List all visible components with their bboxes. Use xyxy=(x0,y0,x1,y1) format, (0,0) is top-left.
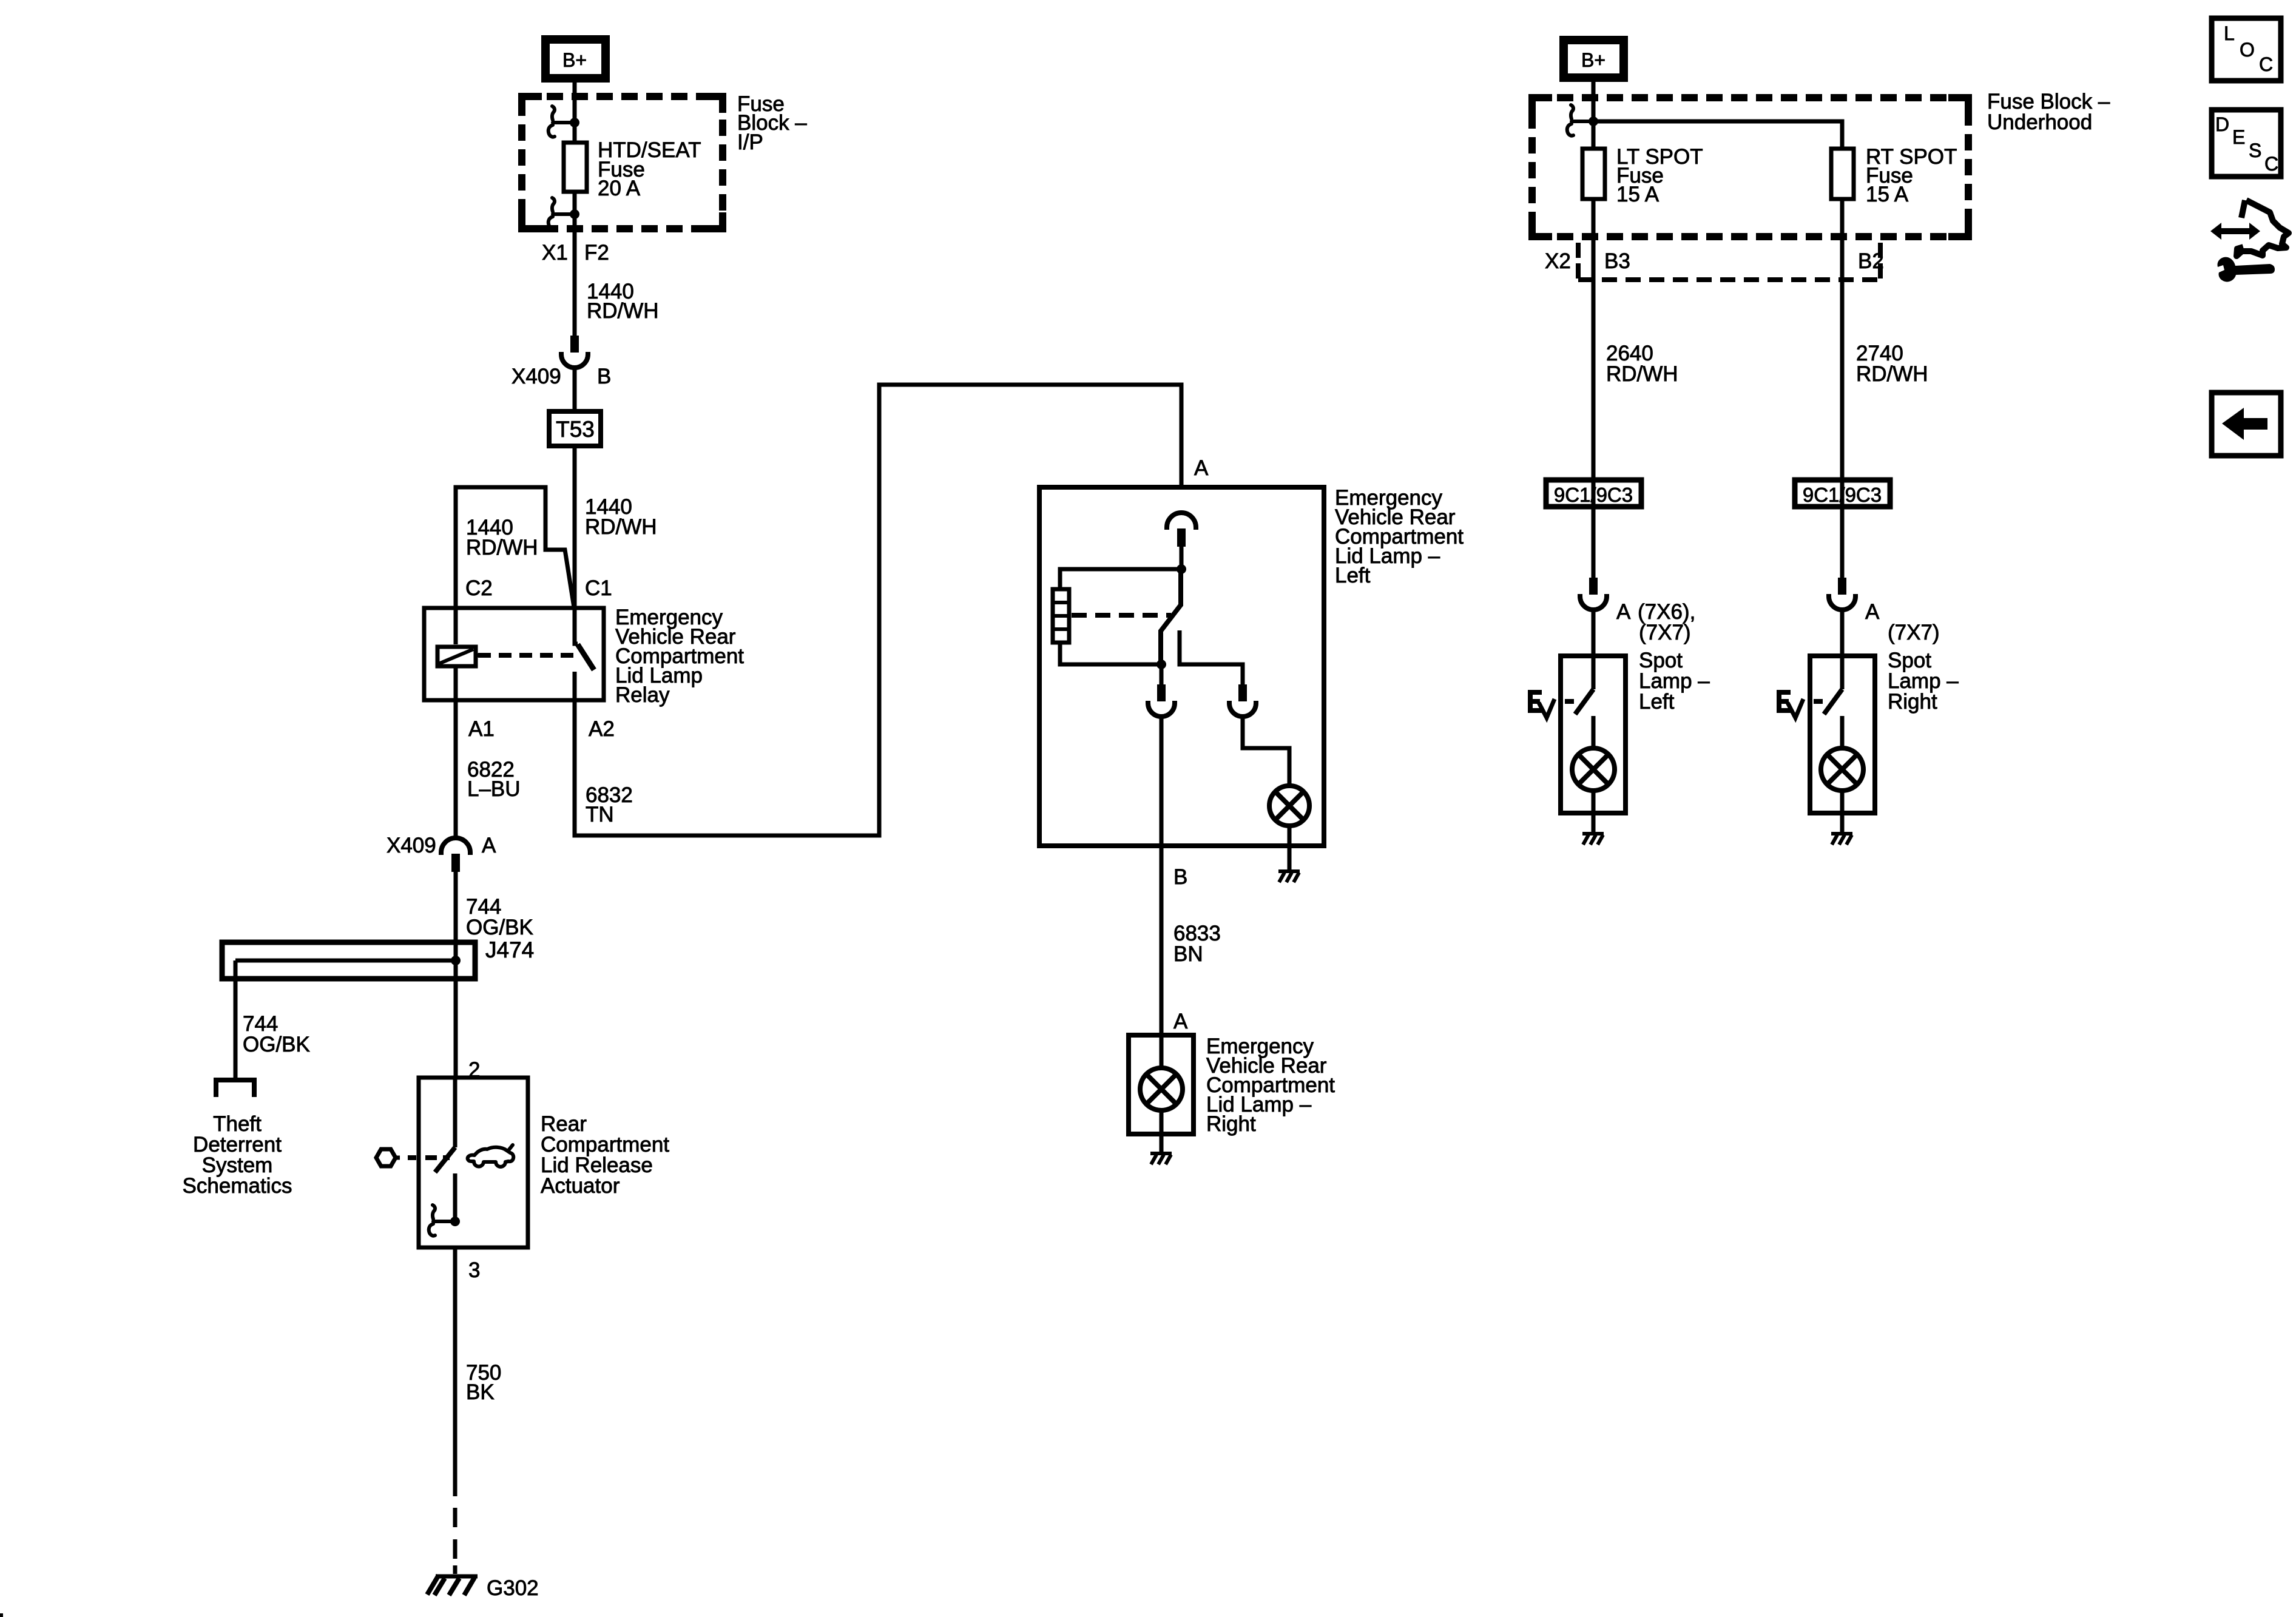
wire LT fuse down xyxy=(1592,199,1596,578)
relay pin labels C2 C1 xyxy=(465,576,612,600)
svg-text:RD/WH: RD/WH xyxy=(1606,362,1678,386)
svg-text:C2: C2 xyxy=(465,576,493,600)
svg-text:X1: X1 xyxy=(542,241,568,265)
actuator box: Rear Compartment Lid Release Actuator xyxy=(419,1078,528,1247)
wire label 750 BK xyxy=(466,1361,501,1404)
wire label 1440 RD/WH (2) xyxy=(585,495,657,539)
lamp-left lower node xyxy=(1156,660,1166,669)
svg-text:L–BU: L–BU xyxy=(467,777,521,801)
svg-text:3: 3 xyxy=(468,1258,480,1282)
pin labels X1 F2 xyxy=(542,241,609,265)
svg-text:BK: BK xyxy=(466,1380,495,1404)
connector X409-A labels xyxy=(387,834,496,857)
ground (spot lamp left) xyxy=(1582,834,1604,845)
actuator name label xyxy=(541,1112,669,1198)
svg-text:(7X7): (7X7) xyxy=(1888,621,1940,644)
svg-text:A: A xyxy=(1194,456,1209,480)
svg-text:Relay: Relay xyxy=(615,683,670,707)
relay switch A2 contact xyxy=(573,672,577,703)
relay switch C1 contact xyxy=(575,609,578,644)
connector spot lamp left pin A xyxy=(1580,578,1607,610)
underhood terminal clip xyxy=(1567,105,1590,136)
wire connector to bulb xyxy=(1243,717,1289,786)
wire node to jamb switch element xyxy=(1060,569,1181,589)
svg-text:S: S xyxy=(2249,140,2261,161)
svg-text:X2: X2 xyxy=(1545,249,1571,273)
svg-text:15 A: 15 A xyxy=(1866,183,1909,206)
fuse LT SPOT 15A xyxy=(1582,149,1605,199)
lamp-left internal connector (B) xyxy=(1148,684,1175,717)
junction fuse output xyxy=(570,209,579,219)
svg-text:C1: C1 xyxy=(585,576,612,600)
wire connector into spot lamp left xyxy=(1592,610,1596,689)
svg-text:OG/BK: OG/BK xyxy=(243,1033,310,1056)
relay switch blade xyxy=(578,644,594,670)
bulb spot lamp left xyxy=(1572,748,1615,791)
wire label 2640 RD/WH xyxy=(1606,342,1678,386)
svg-text:(7X7): (7X7) xyxy=(1639,621,1691,644)
wire RT fuse down xyxy=(1840,199,1845,578)
back arrow box xyxy=(2212,393,2281,456)
relay coil wire to A1 xyxy=(454,666,458,837)
svg-text:RD/WH: RD/WH xyxy=(585,515,657,539)
wire label 6822 L-BU xyxy=(467,758,521,801)
wire label 1440 RD/WH (branch) xyxy=(466,516,538,559)
lamp-left switch dashed link xyxy=(1072,613,1171,618)
fuse HTD/SEAT 20A xyxy=(564,143,587,192)
car icon xyxy=(468,1145,514,1167)
wire label 6832 TN xyxy=(586,783,633,826)
wire J474 through to actuator xyxy=(454,942,458,1076)
relay coil xyxy=(437,647,481,666)
fuse terminal clip (top) xyxy=(549,106,571,137)
svg-text:X409: X409 xyxy=(512,365,561,388)
junction J474 splice xyxy=(451,956,461,965)
actuator contact junction xyxy=(450,1217,460,1226)
wire branch to RT fuse xyxy=(1593,121,1842,149)
ground (lamp-left internal) xyxy=(1278,871,1300,882)
jamb switch thermal element xyxy=(1053,589,1069,643)
spot lamp left switch blade xyxy=(1575,689,1593,714)
connector spot lamp right pin A xyxy=(1829,578,1855,610)
svg-text:T53: T53 xyxy=(556,417,595,442)
wire label 6833 BN xyxy=(1173,922,1221,966)
DESC legend box xyxy=(2212,110,2281,177)
service icon: wrench xyxy=(2217,257,2275,282)
junction B+ branch xyxy=(1589,116,1598,126)
wire to switch node xyxy=(1180,547,1184,569)
svg-text:E: E xyxy=(2232,126,2245,148)
wire into right bulb xyxy=(1160,1033,1164,1068)
wire label 744 OG/BK (left branch) xyxy=(243,1012,310,1056)
svg-text:L: L xyxy=(2224,22,2235,44)
spot lamp right name xyxy=(1888,649,1959,714)
lamp-right name label xyxy=(1206,1035,1335,1136)
junction B+ / fuse xyxy=(570,118,579,127)
fuse block I/P label xyxy=(737,92,807,154)
svg-text:Right: Right xyxy=(1206,1112,1256,1136)
svg-text:RD/WH: RD/WH xyxy=(587,299,659,323)
svg-text:Right: Right xyxy=(1888,690,1937,714)
svg-text:C: C xyxy=(2264,153,2278,175)
bulb lamp-right xyxy=(1140,1068,1183,1110)
splice pack J474 xyxy=(222,942,475,1080)
wire branch loop to C2 xyxy=(456,487,574,607)
wire 9C1 box to connector (right) xyxy=(1840,510,1845,578)
bulb lamp-left xyxy=(1269,786,1309,826)
spot lamp left manual switch icon xyxy=(1530,692,1555,718)
wire label 744 OG/BK (upper) xyxy=(466,895,533,939)
svg-text:G302: G302 xyxy=(487,1576,539,1600)
svg-text:Left: Left xyxy=(1639,690,1675,714)
wire B+ to fuse xyxy=(573,83,577,141)
service icon: connector outline xyxy=(2237,200,2289,256)
spot lamp right manual switch icon xyxy=(1779,692,1803,718)
svg-text:A: A xyxy=(1616,600,1631,624)
wire fuse to X409 xyxy=(573,192,577,336)
fuse RT SPOT label xyxy=(1866,145,1957,206)
svg-text:A1: A1 xyxy=(468,717,495,741)
svg-text:15 A: 15 A xyxy=(1616,183,1660,206)
fuse block underhood corner dashes xyxy=(1528,94,1972,240)
svg-text:O: O xyxy=(2240,39,2255,61)
wire 9C1 box to connector (left) xyxy=(1592,510,1596,578)
relay actuation dashed link xyxy=(478,653,581,658)
lamp-left internal connector (feed) xyxy=(1167,513,1196,547)
wire right bulb to ground xyxy=(1160,1110,1164,1152)
svg-text:TN: TN xyxy=(586,803,614,826)
svg-text:9C1/9C3: 9C1/9C3 xyxy=(1803,484,1882,506)
fuse block underhood dashed outline xyxy=(1532,98,1968,237)
svg-text:D: D xyxy=(2215,113,2229,135)
power B+ (right) xyxy=(1564,40,1624,78)
relay name label xyxy=(615,606,744,707)
svg-text:RD/WH: RD/WH xyxy=(1856,362,1928,386)
lamp-left switch blade xyxy=(1161,572,1181,661)
bulb spot lamp right xyxy=(1821,748,1863,791)
spot lamp box: Spot Lamp Left xyxy=(1561,656,1626,813)
wire X409 to T53 xyxy=(573,368,577,411)
wire T53 to relay C1 xyxy=(573,446,577,609)
lamp box: Emergency Vehicle Rear Compartment Lid Lamp Left xyxy=(1039,487,1324,846)
actuator switch blade xyxy=(435,1147,455,1172)
svg-text:A2: A2 xyxy=(589,717,615,741)
wire B out of box xyxy=(1160,717,1164,1033)
spot lamp box: Spot Lamp Right xyxy=(1810,656,1875,813)
splice T53 xyxy=(549,411,601,446)
svg-text:B+: B+ xyxy=(1581,49,1606,71)
harness code 9C1/9C3 (left) xyxy=(1546,480,1641,507)
svg-text:9C1/9C3: 9C1/9C3 xyxy=(1554,484,1633,506)
relay pin labels A1 A2 xyxy=(468,717,615,741)
fuse block I/P dashed outline xyxy=(522,96,723,229)
spot lamp left dashed actuation xyxy=(1565,699,1574,704)
actuator switch feed xyxy=(453,1078,458,1147)
svg-text:Underhood: Underhood xyxy=(1987,110,2092,134)
svg-text:BN: BN xyxy=(1173,942,1203,966)
svg-text:20 A: 20 A xyxy=(598,177,641,200)
fuse HTD/SEAT label xyxy=(598,138,701,200)
fuse block I/P corner dashes xyxy=(518,93,726,232)
fuse RT SPOT 15A xyxy=(1831,149,1854,199)
wire spot lamp left bulb to ground xyxy=(1592,791,1596,832)
lamp-left B terminal lead xyxy=(1160,664,1164,684)
svg-text:I/P: I/P xyxy=(737,130,763,154)
svg-text:Schematics: Schematics xyxy=(183,1174,292,1198)
page corner mark xyxy=(0,1613,3,1617)
relay coil wire C2 xyxy=(454,606,458,644)
wire spot lamp right bulb to ground xyxy=(1840,791,1845,832)
spot lamp right dashed actuation xyxy=(1814,699,1823,704)
relay box: Emergency Vehicle Rear Compartment Lid Lamp Relay xyxy=(424,608,604,700)
actuator dashed actuation link xyxy=(408,1155,450,1160)
actuator terminal clip xyxy=(429,1205,451,1236)
svg-text:OG/BK: OG/BK xyxy=(466,916,533,939)
wire actuator to ground xyxy=(453,1247,458,1574)
spot lamp right switch blade xyxy=(1824,689,1842,714)
fuse terminal clip (bottom) xyxy=(549,198,571,229)
harness code 9C1/9C3 (right) xyxy=(1795,480,1890,507)
ground (spot lamp right) xyxy=(1831,834,1852,845)
svg-text:RD/WH: RD/WH xyxy=(466,536,538,559)
wire label 1440 RD/WH xyxy=(587,280,659,323)
svg-text:A: A xyxy=(1865,600,1880,624)
wire connector into spot lamp right xyxy=(1840,610,1845,689)
connector X2 dashed outline xyxy=(1578,243,1880,280)
svg-text:B3: B3 xyxy=(1604,249,1630,273)
wire bulb to ground xyxy=(1288,826,1292,870)
svg-text:C: C xyxy=(2259,53,2273,75)
fuse LT SPOT label xyxy=(1616,145,1703,206)
connector labels A (7X7) right xyxy=(1865,600,1940,644)
spot lamp right lower contact xyxy=(1840,716,1845,748)
actuator lower contact xyxy=(453,1173,458,1221)
wire A2 to lamp-left A (6832 TN) xyxy=(575,385,1181,836)
LOC legend box xyxy=(2212,18,2281,81)
lamp box: Emergency Vehicle Rear Compartment Lid Lamp Right xyxy=(1129,1035,1194,1134)
power B+ (left) xyxy=(545,39,606,78)
ground (lamp-right) xyxy=(1150,1153,1172,1164)
ground G302 xyxy=(427,1575,478,1595)
wire B+ into underhood block xyxy=(1592,81,1596,149)
wire label 2740 RD/WH xyxy=(1856,342,1928,386)
svg-text:Left: Left xyxy=(1335,564,1371,587)
wire X409-A to J474 xyxy=(454,872,458,942)
lamp-left name label xyxy=(1335,486,1464,587)
lamp-left switch node xyxy=(1177,564,1186,574)
connector X2 pin labels xyxy=(1545,249,1884,273)
svg-text:B2: B2 xyxy=(1858,249,1884,273)
lamp-left internal connector (lamp) xyxy=(1229,684,1256,717)
wire element to lower node xyxy=(1060,643,1161,664)
svg-text:Actuator: Actuator xyxy=(541,1174,620,1198)
connector X409 pin B xyxy=(561,336,588,368)
connector X409 pin A xyxy=(441,838,470,872)
svg-text:B+: B+ xyxy=(562,49,587,71)
service icon: double arrow xyxy=(2210,223,2260,240)
svg-text:B: B xyxy=(597,365,611,388)
theft deterrent reference label xyxy=(183,1112,292,1198)
svg-text:F2: F2 xyxy=(584,241,609,265)
fuse block underhood label xyxy=(1987,90,2110,134)
connector X409-B labels xyxy=(512,365,611,388)
connector labels A (7X6),(7X7) xyxy=(1616,600,1695,644)
off-page connector to theft deterrent xyxy=(216,1080,254,1097)
svg-text:J474: J474 xyxy=(485,937,534,962)
actuator manual hex knob xyxy=(376,1149,400,1166)
svg-text:B: B xyxy=(1173,865,1187,889)
spot lamp left name xyxy=(1639,649,1710,714)
spot lamp left lower contact xyxy=(1592,716,1596,748)
svg-text:A: A xyxy=(482,834,496,857)
svg-text:X409: X409 xyxy=(387,834,436,857)
svg-text:A: A xyxy=(1173,1010,1188,1033)
lamp-left stationary contact to lamp xyxy=(1180,630,1243,684)
